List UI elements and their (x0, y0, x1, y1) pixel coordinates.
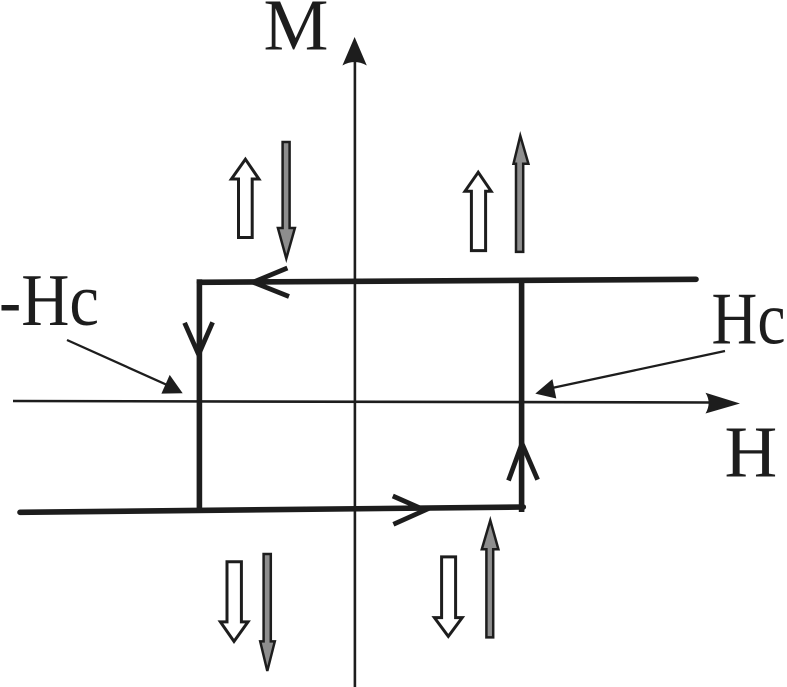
hysteresis loop: right vertical segment (519, 278, 525, 512)
hysteresis loop: bottom branch (20, 507, 523, 512)
gray domain arrow up (top-right) (514, 136, 529, 252)
annotation arrow from -Hc to axis (67, 340, 183, 394)
white domain arrow down (bottom-right) (434, 557, 462, 637)
svg-text:Hc: Hc (712, 279, 786, 361)
svg-text:M: M (264, 0, 329, 66)
M axis (vertical) (342, 37, 366, 687)
svg-text:-Hc: -Hc (0, 260, 99, 342)
white domain arrow up (top-left) (231, 159, 259, 237)
loop direction arrow: down-pointing chevron on left segment (185, 322, 213, 354)
H axis (horizontal) (13, 393, 740, 414)
loop direction arrow: up-pointing chevron on right segment (509, 444, 538, 481)
white domain arrow up (top-right) (465, 172, 491, 250)
hysteresis loop: top branch (199, 279, 696, 282)
loop direction arrow: right-pointing chevron on bottom branch (393, 496, 425, 524)
hysteresis loop: left vertical segment (197, 279, 203, 512)
gray domain arrow down (top-left) (278, 142, 295, 259)
svg-text:H: H (725, 412, 778, 493)
annotation arrow from Hc to axis (535, 351, 725, 399)
white domain arrow down (bottom-left) (220, 562, 248, 642)
gray domain arrow down (bottom-left) (260, 554, 275, 671)
loop direction arrow: left-pointing chevron on top branch (253, 268, 289, 297)
gray domain arrow up (bottom-right) (482, 520, 499, 637)
